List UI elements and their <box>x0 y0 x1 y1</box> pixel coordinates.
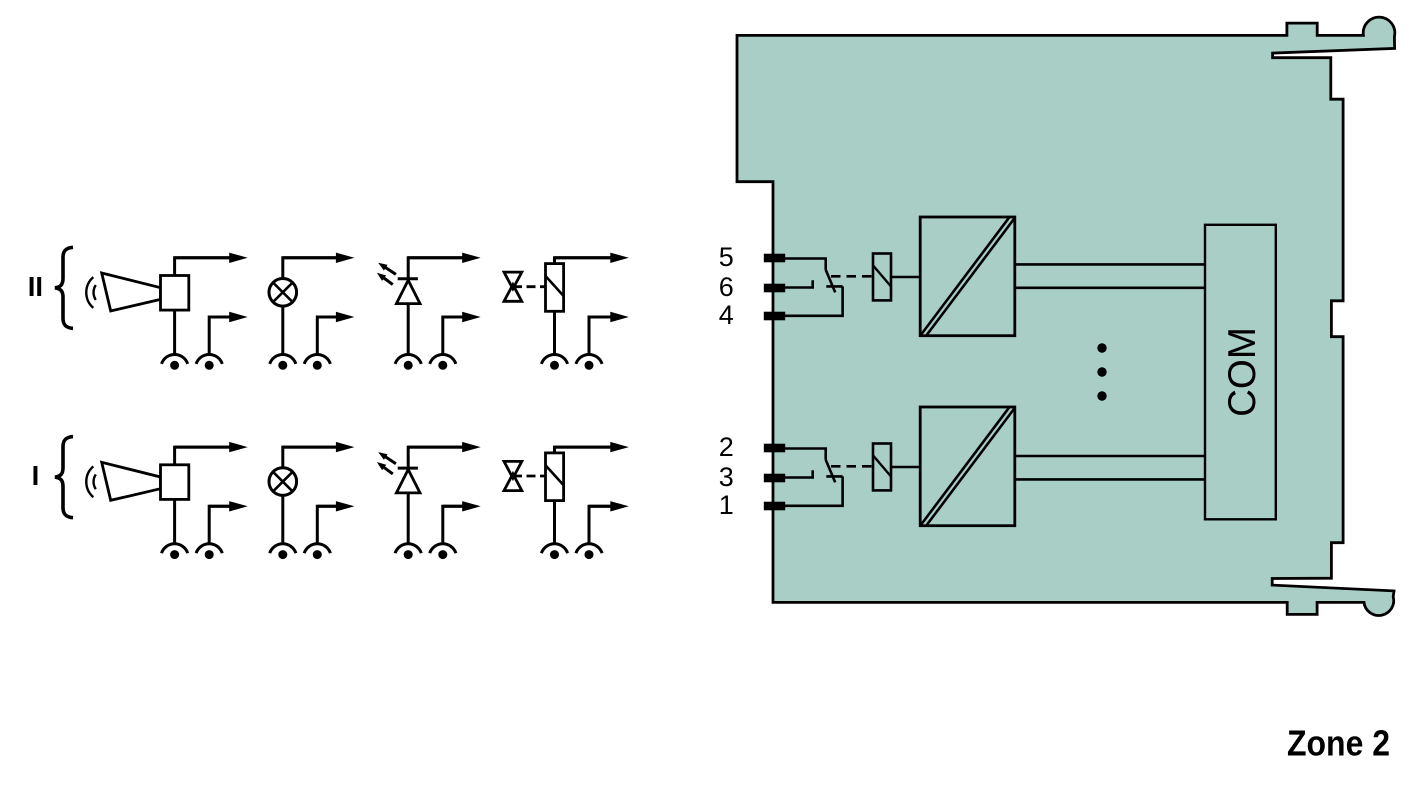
wire: lamp return line with arrow (group II) <box>317 312 354 356</box>
switch blade (channel 5/6/4) <box>826 270 836 293</box>
LED light emission arrows (group II) <box>377 263 396 285</box>
wire: lamp to plug (group I) <box>281 495 284 544</box>
wire: valve return line with arrow (group II) <box>589 312 629 356</box>
terminal block 6 <box>764 284 785 293</box>
wire: LED anode to control with arrow (group II) <box>408 253 481 304</box>
solenoid valve body (group II) <box>504 272 522 301</box>
sounder/horn symbol (group II) <box>86 273 189 311</box>
wire: lamp to plug (group II) <box>281 306 284 355</box>
wire: LED return line with arrow (group II) <box>443 312 481 356</box>
indicator lamp symbol (group I) <box>269 468 297 496</box>
solenoid coil (group II) <box>546 264 564 312</box>
relay coil (channel 2/3/1) <box>873 444 891 491</box>
dashed mechanical link valve-coil (group II) <box>513 285 546 288</box>
plug socket (group II lamp, pin a) <box>270 354 296 369</box>
wire: horn return line with arrow (group II) <box>209 312 248 356</box>
relay coil (channel 5/6/4) <box>873 254 891 301</box>
wire: valve return line with arrow (group I) <box>589 501 629 545</box>
bus wire pair isolator to COM <box>1015 456 1205 479</box>
plug socket (group II horn, pin b) <box>196 354 222 369</box>
bus wire pair isolator to COM <box>1015 264 1205 287</box>
wire from terminal 4 to contact bar <box>785 286 843 315</box>
wire: lamp return line with arrow (group I) <box>317 501 354 545</box>
plug socket (group I valve, pin a) <box>541 544 567 559</box>
svg-text:I: I <box>32 460 40 491</box>
terminal block 4 <box>764 312 785 321</box>
wire: LED return line with arrow (group I) <box>443 501 481 545</box>
wire: LED cathode to plug (group II) <box>407 304 410 356</box>
terminal block 2 <box>764 444 785 453</box>
wire: lamp output to control (group II) <box>283 253 355 279</box>
plug socket (group II LED, pin b) <box>430 354 456 369</box>
wire: lamp output to control (group I) <box>283 442 355 468</box>
terminal block 3 <box>764 474 785 483</box>
COM interface block <box>1205 225 1276 520</box>
svg-text:6: 6 <box>719 272 734 302</box>
plug socket (group I horn, pin a) <box>162 544 188 559</box>
wire from terminal 1 to contact bar <box>785 476 843 505</box>
wire: valve coil to control with arrow (group II) <box>555 253 629 264</box>
indicator lamp symbol (group II) <box>269 279 297 307</box>
dashed mechanical link valve-coil (group I) <box>513 475 546 478</box>
plug socket (group I valve, pin b) <box>576 544 602 559</box>
plug socket (group II lamp, pin b) <box>304 354 330 369</box>
solenoid coil (group I) <box>546 453 564 501</box>
plug socket (group I LED, pin a) <box>395 544 421 559</box>
svg-text:COM: COM <box>1221 327 1264 417</box>
svg-text:5: 5 <box>719 242 734 272</box>
plug socket (group II valve, pin a) <box>541 354 567 369</box>
wire: valve coil to plug (group I) <box>553 501 556 545</box>
plug socket (group II valve, pin b) <box>576 354 602 369</box>
wire: horn output to control (group I) <box>175 442 248 465</box>
wire: horn to plug (group I) <box>173 499 176 544</box>
wire: LED cathode to plug (group I) <box>407 493 410 545</box>
svg-text:3: 3 <box>719 462 734 492</box>
plug socket (group I lamp, pin a) <box>270 544 296 559</box>
dashed mechanical link switch-coil <box>831 275 873 278</box>
vertical ellipsis dots between channels <box>1097 343 1106 400</box>
LED symbol (group I) <box>396 468 420 493</box>
wire: valve coil to control with arrow (group I) <box>555 442 629 453</box>
LED symbol (group II) <box>396 279 420 304</box>
svg-text:4: 4 <box>719 300 734 330</box>
wire: LED anode to control with arrow (group I) <box>408 442 481 493</box>
switch contact bar <box>826 475 842 478</box>
plug socket (group II LED, pin a) <box>395 354 421 369</box>
svg-text:II: II <box>28 271 43 302</box>
wire: horn output to control (group II) <box>175 253 248 276</box>
galvanic isolator / amplifier (channel 2/3/1) <box>920 407 1015 526</box>
galvanic isolator / amplifier (channel 5/6/4) <box>920 217 1015 336</box>
sounder/horn symbol (group I) <box>86 462 189 500</box>
switch blade (channel 2/3/1) <box>826 460 836 483</box>
plug socket (group I lamp, pin b) <box>304 544 330 559</box>
solenoid valve body (group I) <box>504 461 522 490</box>
plug socket (group II horn, pin a) <box>162 354 188 369</box>
wire: horn to plug (group II) <box>173 310 176 355</box>
wire from terminal 6 to contact <box>785 280 813 287</box>
terminal block 5 <box>764 254 785 263</box>
wire from terminal 2 to switch common <box>785 449 826 460</box>
wire from terminal 5 to switch common <box>785 259 826 270</box>
wire coil to isolator <box>891 276 920 279</box>
svg-text:2: 2 <box>719 432 734 462</box>
isolated barrier module body (Zone 2 device housing) <box>737 17 1395 615</box>
wire coil to isolator <box>891 466 920 469</box>
wire from terminal 3 to contact <box>785 470 813 477</box>
wire: valve coil to plug (group II) <box>553 311 556 355</box>
brace for group II <box>55 247 73 328</box>
dashed mechanical link switch-coil <box>831 465 873 468</box>
plug socket (group I horn, pin b) <box>196 544 222 559</box>
plug socket (group I LED, pin b) <box>430 544 456 559</box>
svg-text:1: 1 <box>719 490 734 520</box>
brace for group I <box>55 437 73 518</box>
wire: horn return line with arrow (group I) <box>209 501 248 545</box>
svg-text:Zone 2: Zone 2 <box>1287 723 1390 764</box>
terminal block 1 <box>764 502 785 511</box>
LED light emission arrows (group I) <box>377 452 396 474</box>
switch contact bar <box>826 285 842 288</box>
